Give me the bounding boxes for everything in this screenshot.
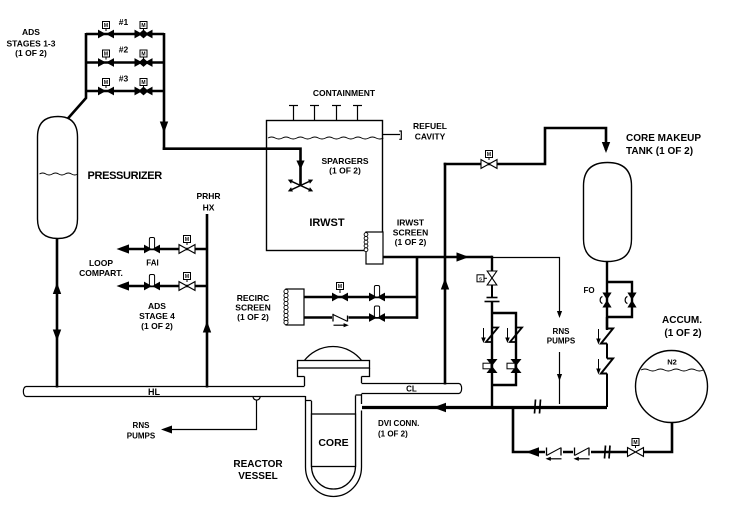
label ADS STAGE 4 (1 OF 2) bbox=[139, 301, 175, 331]
squib valve recirc bottom bbox=[369, 313, 385, 322]
wire: main vertical x445 bbox=[444, 163, 447, 385]
svg-text:CL: CL bbox=[406, 385, 417, 394]
pipe: hot leg bbox=[23, 387, 305, 397]
vessel: core makeup tank bbox=[584, 163, 632, 262]
svg-text:ADS: ADS bbox=[22, 27, 40, 37]
svg-text:(1 OF 2): (1 OF 2) bbox=[664, 328, 701, 339]
squib valve ADS4-2 bbox=[144, 282, 160, 291]
arrow left ADS4 line1 bbox=[117, 244, 130, 253]
svg-text:HL: HL bbox=[148, 387, 160, 397]
water level wave in IRWST bbox=[268, 137, 383, 139]
valve ADS2-B (double) bbox=[135, 58, 153, 67]
svg-text:IRWST: IRWST bbox=[397, 218, 425, 228]
svg-text:S: S bbox=[479, 277, 482, 282]
outer shell bbox=[306, 394, 362, 497]
check valve left branch bbox=[483, 359, 498, 373]
flange end steps bbox=[298, 368, 370, 377]
solenoid valve bbox=[487, 271, 497, 285]
svg-text:#2: #2 bbox=[119, 45, 129, 55]
svg-text:DVI CONN.: DVI CONN. bbox=[378, 419, 419, 428]
svg-text:PUMPS: PUMPS bbox=[127, 432, 156, 441]
svg-text:CAVITY: CAVITY bbox=[415, 132, 446, 142]
svg-text:(1 OF 2): (1 OF 2) bbox=[237, 312, 269, 322]
water level wave in pressurizer bbox=[40, 173, 78, 175]
wire: ADS stage 4 line 2 bbox=[126, 285, 207, 288]
inner shell bbox=[306, 395, 362, 489]
label RECIRC SCREEN (1 OF 2) bbox=[235, 293, 270, 322]
svg-text:FAI: FAI bbox=[146, 259, 158, 268]
label RNS PUMPS bbox=[547, 327, 576, 346]
svg-text:ACCUM.: ACCUM. bbox=[662, 315, 702, 326]
wire: recirc top line bbox=[304, 296, 417, 299]
arrow left ADS4 line2 bbox=[117, 281, 130, 290]
MOV recirc bbox=[332, 293, 348, 302]
svg-text:CORE: CORE bbox=[318, 437, 348, 449]
valve ADS2-A bbox=[98, 58, 114, 67]
squib symbol right branch bbox=[505, 328, 522, 344]
wire: parallel branch loop bbox=[492, 302, 516, 407]
valve ADS1-A bbox=[98, 30, 114, 39]
svg-text:VESSEL: VESSEL bbox=[238, 471, 277, 482]
label IRWST SCREEN (1 OF 2) bbox=[393, 218, 428, 248]
svg-text:#3: #3 bbox=[119, 74, 129, 84]
wire: screen outlet line bbox=[383, 256, 492, 259]
label CORE MAKEUP TANK (1 OF 2) bbox=[626, 133, 701, 157]
vessel: pressurizer bbox=[38, 117, 78, 239]
svg-text:ADS: ADS bbox=[148, 301, 166, 311]
arrow up on PRHR line bbox=[203, 321, 211, 333]
squib symbol left branch bbox=[481, 328, 498, 344]
vessel: reactor vessel bbox=[298, 347, 370, 497]
svg-text:N2: N2 bbox=[667, 358, 677, 367]
vessel: accumulator bbox=[636, 351, 708, 423]
IRWST screen bbox=[366, 232, 383, 264]
check valve 2 bbox=[574, 448, 590, 461]
label SPARGERS (1 OF 2) bbox=[321, 156, 368, 176]
label REACTOR VESSEL bbox=[233, 459, 283, 482]
arrow left on accum line bbox=[526, 447, 539, 457]
wire: ADS left header vertical bbox=[67, 33, 86, 120]
wire: recirc riser bbox=[416, 257, 419, 319]
wire: branch down from screen line bbox=[491, 256, 493, 271]
svg-text:SCREEN: SCREEN bbox=[235, 303, 270, 313]
wire: CMT outlet with FO loop bbox=[607, 262, 632, 330]
svg-text:(1 OF 2): (1 OF 2) bbox=[15, 48, 47, 58]
recirc screen bbox=[286, 289, 304, 325]
wire: PRHR vertical bbox=[206, 214, 209, 388]
svg-text:PUMPS: PUMPS bbox=[547, 337, 576, 346]
svg-text:#1: #1 bbox=[119, 17, 129, 27]
wire: ADS row 3 bbox=[86, 90, 164, 93]
squib valve ADS4-1 bbox=[144, 245, 160, 254]
svg-text:STAGE 4: STAGE 4 bbox=[139, 311, 175, 321]
svg-text:FO: FO bbox=[583, 286, 594, 295]
svg-text:TANK (1 OF 2): TANK (1 OF 2) bbox=[626, 146, 693, 157]
svg-text:LOOP: LOOP bbox=[89, 258, 113, 268]
wire: pressurizer surge line bbox=[56, 239, 59, 388]
containment vents on IRWST roof bbox=[289, 106, 362, 121]
pipe: cold leg bbox=[362, 384, 462, 394]
svg-text:COMPART.: COMPART. bbox=[79, 268, 123, 278]
arrow down on ADS right header bbox=[160, 122, 168, 134]
flange on accum line bbox=[605, 446, 606, 459]
svg-text:REACTOR: REACTOR bbox=[233, 459, 283, 470]
MOV on CMT feed bbox=[481, 160, 497, 169]
svg-text:REFUEL: REFUEL bbox=[413, 121, 447, 131]
wire: recirc bottom line bbox=[304, 316, 418, 319]
label DVI CONN. (1 OF 2) bbox=[378, 419, 419, 439]
sparger symbol bbox=[287, 178, 314, 194]
MOV on accum line bbox=[628, 448, 644, 457]
label RNS PUMPS (left) bbox=[127, 421, 156, 441]
MOV ADS4-2 bbox=[179, 282, 195, 291]
arrow down on sparger drop bbox=[296, 161, 304, 170]
wire: ADS row 2 bbox=[86, 61, 164, 64]
valve ADS1-B (double) bbox=[135, 30, 153, 39]
svg-text:RNS: RNS bbox=[133, 421, 151, 430]
svg-text:PRHR: PRHR bbox=[196, 191, 220, 201]
wire: CMT feed top bbox=[444, 128, 606, 164]
svg-text:CONTAINMENT: CONTAINMENT bbox=[313, 88, 376, 98]
neck walls bbox=[305, 377, 362, 387]
rupture disc symbol bbox=[491, 285, 493, 297]
label LOOP COMPART. bbox=[79, 258, 123, 278]
core barrel bbox=[312, 414, 356, 467]
refuel cavity connection bbox=[382, 134, 400, 136]
svg-text:(1 OF 2): (1 OF 2) bbox=[329, 166, 361, 176]
svg-text:HX: HX bbox=[203, 203, 215, 213]
arrow up on surge line bbox=[53, 283, 61, 295]
svg-text:CORE MAKEUP: CORE MAKEUP bbox=[626, 133, 701, 144]
wire: DVI horizontal bbox=[362, 406, 607, 409]
svg-text:PRESSURIZER: PRESSURIZER bbox=[88, 170, 163, 182]
svg-text:RNS: RNS bbox=[553, 327, 571, 336]
arrow down into CMT bbox=[602, 142, 610, 153]
swing check recirc bbox=[333, 314, 349, 328]
svg-text:SPARGERS: SPARGERS bbox=[321, 156, 368, 166]
flange on DVI bbox=[535, 400, 536, 414]
squib valve recirc top bbox=[369, 293, 385, 302]
arrow right on screen outlet bbox=[457, 252, 470, 261]
svg-text:(1 OF 2): (1 OF 2) bbox=[141, 321, 173, 331]
svg-text:STAGES 1-3: STAGES 1-3 bbox=[7, 39, 56, 49]
wire: accumulator discharge bbox=[513, 406, 672, 452]
RNS drain from hot leg bbox=[253, 397, 260, 401]
wire: ADS stage 4 line 1 bbox=[126, 248, 207, 251]
FO valve right bbox=[625, 293, 636, 308]
MOV ADS4-1 bbox=[179, 245, 195, 254]
wire: ADS row 1 bbox=[86, 33, 164, 36]
svg-text:(1 OF 2): (1 OF 2) bbox=[378, 430, 408, 439]
squib symbols on CMT line bbox=[601, 329, 613, 408]
label ADS STAGES 1-3 (1 OF 2) bbox=[7, 27, 56, 58]
check valve right branch bbox=[507, 359, 522, 373]
water level wave in accumulator bbox=[641, 369, 703, 371]
wire: thin line continues to DVI bbox=[559, 352, 561, 404]
label ACCUM. (1 OF 2) bbox=[662, 315, 702, 339]
vessel: IRWST tank bbox=[267, 121, 383, 251]
FO valve left bbox=[600, 293, 611, 308]
valve ADS3-B (double) bbox=[135, 87, 153, 96]
valve ADS3-A bbox=[98, 87, 114, 96]
wire: thin line to RNS pumps bbox=[492, 258, 560, 312]
svg-text:(1 OF 2): (1 OF 2) bbox=[395, 237, 427, 247]
flange bbox=[298, 361, 370, 369]
arrow left on DVI bbox=[433, 403, 446, 413]
svg-text:IRWST: IRWST bbox=[309, 217, 345, 229]
label REFUEL CAVITY bbox=[413, 121, 447, 142]
svg-text:SCREEN: SCREEN bbox=[393, 228, 428, 238]
dome bbox=[304, 347, 362, 361]
check valve 1 bbox=[546, 448, 562, 461]
label PRHR HX bbox=[196, 191, 220, 213]
arrow down on surge line bbox=[53, 330, 61, 342]
arrow up on main vertical bbox=[441, 278, 449, 290]
wire: ADS right header vertical bbox=[163, 33, 166, 150]
wire: sparger feed line from ADS header into IRWST bbox=[163, 149, 301, 185]
svg-text:RECIRC: RECIRC bbox=[237, 293, 270, 303]
